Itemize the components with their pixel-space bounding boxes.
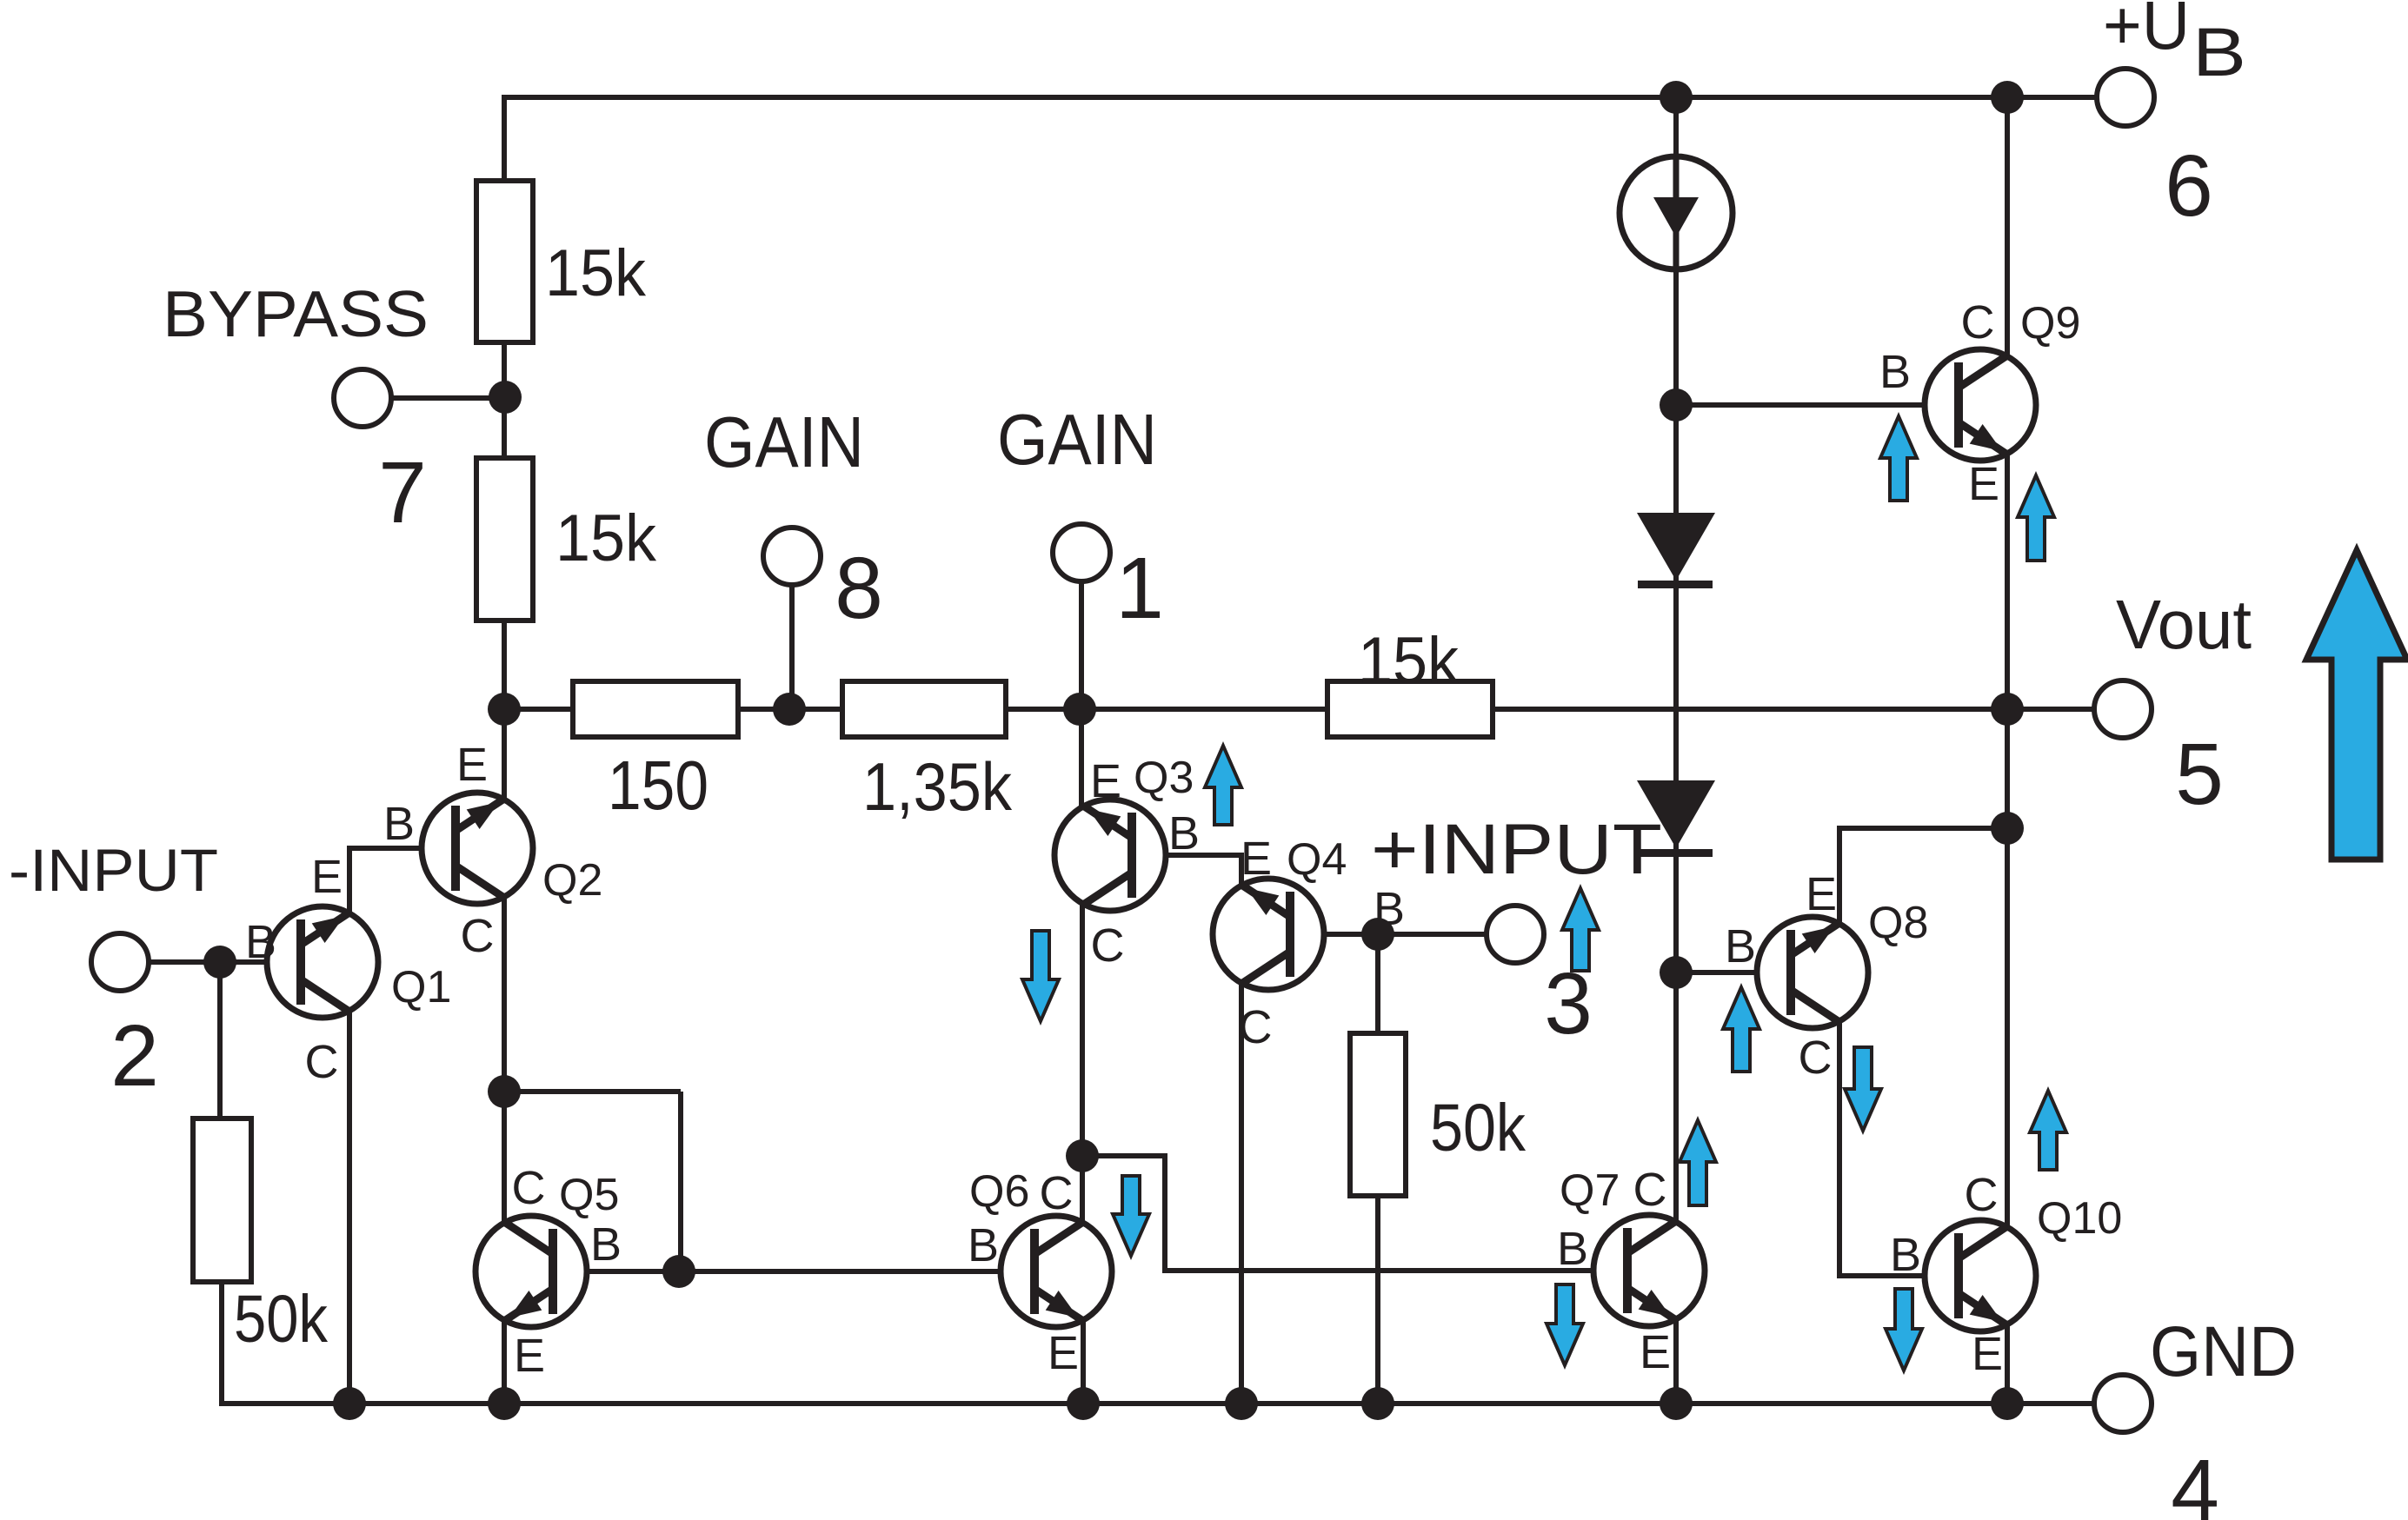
current arrow Q7 collector up xyxy=(1680,1120,1716,1205)
svg-text:C: C xyxy=(461,910,495,962)
wire Q8 collector to Q10 base xyxy=(1839,1022,1955,1276)
svg-text:C: C xyxy=(1799,1032,1833,1084)
terminal pin 1 GAIN xyxy=(1053,524,1110,581)
svg-text:B: B xyxy=(590,1218,622,1271)
label 7 xyxy=(378,444,427,541)
current arrow Q8 collector down xyxy=(1845,1047,1881,1131)
label 6 xyxy=(2165,137,2213,235)
diode D2 xyxy=(1637,780,1715,857)
resistor 50k (pin2 input bias) xyxy=(193,1118,328,1357)
terminal pin 6 +UB xyxy=(2097,69,2154,126)
transistor Q2 xyxy=(383,739,602,962)
label GND xyxy=(2150,1312,2297,1391)
svg-text:Q2: Q2 xyxy=(542,855,602,906)
transistor Q5 xyxy=(476,1162,622,1382)
svg-text:GND: GND xyxy=(2150,1312,2297,1391)
node Q8 emitter xyxy=(1991,812,2024,845)
svg-text:8: 8 xyxy=(835,540,883,637)
node Q2 collector xyxy=(488,1075,521,1108)
svg-text:E: E xyxy=(1972,1328,2003,1380)
label 8 xyxy=(835,540,883,637)
svg-text:Q10: Q10 xyxy=(2037,1193,2122,1244)
svg-text:7: 7 xyxy=(378,444,427,541)
svg-text:-INPUT: -INPUT xyxy=(9,837,218,904)
svg-text:+INPUT: +INPUT xyxy=(1371,810,1662,889)
wire Q3 base to Q4 emitter xyxy=(1135,855,1241,886)
current arrow Q7 base down xyxy=(1547,1284,1583,1365)
wire feedback rail (pins 8-1, 15k to Vout) xyxy=(504,707,2097,712)
transistor Q6 xyxy=(968,1166,1112,1379)
current arrow pin3 up xyxy=(1562,888,1599,971)
wire Q3 collector / Q6 collector xyxy=(1080,905,1085,1222)
svg-text:C: C xyxy=(1633,1164,1667,1216)
svg-text:B: B xyxy=(1168,807,1200,860)
node gnd Q5 xyxy=(488,1387,521,1420)
svg-text:B: B xyxy=(1557,1223,1588,1275)
svg-text:C: C xyxy=(1091,919,1125,972)
svg-text:B: B xyxy=(2192,13,2246,90)
node Q5-Q6 base xyxy=(662,1255,695,1288)
svg-text:BYPASS: BYPASS xyxy=(163,277,429,350)
svg-text:B: B xyxy=(1879,346,1911,398)
svg-text:B: B xyxy=(383,798,415,850)
svg-text:C: C xyxy=(512,1162,546,1214)
transistor Q10 xyxy=(1890,1169,2122,1380)
node Q8 base xyxy=(1660,956,1693,989)
svg-text:Q6: Q6 xyxy=(969,1166,1029,1217)
svg-text:15k: 15k xyxy=(1358,624,1460,698)
transistor Q8 xyxy=(1725,868,1928,1084)
wire top +UB rail xyxy=(504,95,2097,100)
wire Q3C node to Q7 base link xyxy=(1082,1156,1624,1271)
wire between 15k resistors through bypass node xyxy=(502,340,507,461)
svg-text:E: E xyxy=(1090,755,1121,807)
node Q3 collector xyxy=(1066,1139,1099,1172)
wire Q9 base from bias chain xyxy=(1676,402,1953,408)
svg-text:150: 150 xyxy=(608,747,708,824)
transistor Q4 xyxy=(1213,833,1405,1053)
wire pin2 node to 50k xyxy=(217,962,223,1121)
current arrow Q8 base up xyxy=(1723,987,1759,1072)
wire left vertical from top rail to 15k resistor xyxy=(502,95,507,183)
terminal pin 8 GAIN xyxy=(763,528,821,585)
wire Q5-Q6 base rail xyxy=(556,1269,1030,1274)
wire 50k-2 vertical xyxy=(1375,934,1380,1404)
label 1 xyxy=(1115,540,1164,637)
current arrow Q10 collector up xyxy=(2030,1091,2066,1170)
transistor Q1 xyxy=(245,851,451,1088)
svg-text:6: 6 xyxy=(2165,137,2213,235)
wire Q4 collector to ground xyxy=(1239,984,1244,1404)
svg-text:B: B xyxy=(968,1219,999,1271)
svg-text:Vout: Vout xyxy=(2116,586,2252,663)
current arrow Q6 down xyxy=(1113,1176,1149,1256)
transistor Q7 xyxy=(1557,1164,1705,1378)
wire bias chain vertical (current source, diodes) xyxy=(1673,95,1679,1221)
current source xyxy=(1620,156,1733,269)
svg-text:Q3: Q3 xyxy=(1134,753,1194,803)
svg-text:B: B xyxy=(245,916,276,968)
svg-text:Q9: Q9 xyxy=(2020,298,2080,348)
wire Q6 emitter to ground xyxy=(1081,1321,1086,1404)
svg-text:50k: 50k xyxy=(234,1282,328,1357)
node pin2 xyxy=(203,946,236,979)
wire ground rail to GND terminal xyxy=(2007,1401,2094,1406)
svg-text:GAIN: GAIN xyxy=(997,399,1157,480)
node gnd 50k xyxy=(1361,1387,1394,1420)
svg-text:E: E xyxy=(1241,833,1272,885)
resistor 1,35k (gain network) xyxy=(842,681,1013,825)
svg-text:E: E xyxy=(1048,1327,1079,1379)
svg-text:Q4: Q4 xyxy=(1287,834,1347,885)
label +INPUT xyxy=(1371,810,1662,889)
svg-text:GAIN: GAIN xyxy=(704,402,864,482)
transistor Q9 xyxy=(1879,296,2080,510)
svg-text:15k: 15k xyxy=(545,236,647,310)
terminal pin 4 GND xyxy=(2094,1375,2152,1432)
node pin8 xyxy=(773,693,806,726)
svg-text:C: C xyxy=(1239,1001,1273,1053)
node gnd Q7 xyxy=(1660,1387,1693,1420)
output current arrow (big) xyxy=(2306,550,2407,860)
svg-text:C: C xyxy=(305,1036,339,1088)
node bias top xyxy=(1660,81,1693,114)
svg-text:E: E xyxy=(311,851,343,903)
wire Q8 base from diode node xyxy=(1676,970,1786,975)
svg-text:4: 4 xyxy=(2171,1442,2219,1520)
label 5 xyxy=(2175,726,2224,823)
svg-text:2: 2 xyxy=(110,1007,159,1105)
svg-text:E: E xyxy=(1968,458,1999,510)
svg-text:1,35k: 1,35k xyxy=(862,748,1013,825)
wire Q2C node to Q5 base link horizontal xyxy=(504,1089,681,1094)
diode D1 xyxy=(1637,513,1715,588)
resistor 15k (feedback to Vout) xyxy=(1327,624,1493,737)
svg-text:Q7: Q7 xyxy=(1560,1165,1620,1216)
label BYPASS xyxy=(163,277,429,350)
wire 50k to ground rail xyxy=(222,1279,2007,1404)
label 3 xyxy=(1544,955,1593,1052)
label +UB xyxy=(2103,0,2246,90)
wire Q1 emitter to Q2 base xyxy=(349,848,451,913)
svg-text:B: B xyxy=(1725,920,1756,972)
transistor Q3 xyxy=(1054,753,1200,972)
svg-text:5: 5 xyxy=(2175,726,2224,823)
label -INPUT xyxy=(9,837,218,904)
label Vout xyxy=(2116,586,2252,663)
wire bypass terminal to node 7 xyxy=(391,395,505,401)
svg-text:Q5: Q5 xyxy=(559,1170,619,1220)
wire Q2 emitter to rail xyxy=(502,709,507,800)
svg-text:50k: 50k xyxy=(1430,1091,1526,1165)
svg-text:B: B xyxy=(1890,1229,1921,1281)
wire Q2 collector / Q5 collector xyxy=(502,896,507,1223)
wire Q1 collector to ground xyxy=(347,1012,352,1404)
current arrow Q3 collector down xyxy=(1022,931,1059,1021)
wire right output rail (Q9 C-E, Vout, Q10 C) xyxy=(2005,97,2010,1226)
label GAIN 8 xyxy=(704,402,864,482)
terminal pin 7 BYPASS xyxy=(334,369,391,427)
node pin3 +input xyxy=(1361,918,1394,951)
node gnd Q4 xyxy=(1225,1387,1258,1420)
label 2 xyxy=(110,1007,159,1105)
label GAIN 1 xyxy=(997,399,1157,480)
svg-text:+U: +U xyxy=(2103,0,2190,63)
node gnd Q10 xyxy=(1991,1387,2024,1420)
wire Q10 emitter to ground xyxy=(2005,1325,2010,1404)
node gnd Q6 xyxy=(1067,1387,1100,1420)
svg-text:Q1: Q1 xyxy=(391,962,451,1012)
svg-text:E: E xyxy=(456,739,488,791)
current arrow Q9 emitter up xyxy=(2018,475,2054,561)
svg-text:15k: 15k xyxy=(555,501,657,575)
svg-text:E: E xyxy=(1640,1326,1671,1378)
node pin1 xyxy=(1063,693,1096,726)
wire Q5 emitter to ground xyxy=(502,1321,507,1404)
resistor 15k (top, pin7 upper) xyxy=(476,181,647,342)
wire Q1 base from pin 2 xyxy=(149,959,296,965)
current arrow Q9 base up xyxy=(1880,416,1917,501)
terminal pin 2 -INPUT xyxy=(91,933,149,991)
terminal pin 3 +INPUT xyxy=(1487,906,1544,963)
node Q9 base xyxy=(1660,388,1693,421)
node gnd Q1 xyxy=(333,1387,366,1420)
wire Q4 base to +input xyxy=(1294,932,1487,937)
wire Q8 emitter to output rail xyxy=(1839,828,2007,923)
terminal pin 5 Vout xyxy=(2094,680,2152,738)
resistor 150 (gain network) xyxy=(573,681,738,824)
svg-text:C: C xyxy=(1965,1169,1999,1221)
wire Q7 emitter to ground xyxy=(1673,1320,1679,1404)
svg-text:Q8: Q8 xyxy=(1868,898,1928,948)
label 4 xyxy=(2171,1442,2219,1520)
wire gain pin 8 drop xyxy=(789,585,795,709)
node feedback left xyxy=(488,693,521,726)
svg-text:E: E xyxy=(514,1330,545,1382)
svg-text:C: C xyxy=(1961,296,1995,348)
node Vout xyxy=(1991,693,2024,726)
node +UB rail right xyxy=(1991,81,2024,114)
svg-text:C: C xyxy=(1040,1167,1074,1219)
wire 15k to feedback rail xyxy=(502,618,507,709)
wire gain pin 1 / Q3 emitter drop xyxy=(1079,583,1084,806)
resistor 50k (pin3 input bias) xyxy=(1350,1033,1526,1196)
resistor 15k (pin7 lower) xyxy=(476,458,657,621)
wire Q5 base link vertical xyxy=(678,1092,683,1271)
current arrow Q3 emitter up xyxy=(1205,746,1241,825)
current arrow Q10 base down xyxy=(1886,1289,1922,1371)
node 7 bypass xyxy=(489,381,522,414)
svg-text:1: 1 xyxy=(1115,540,1164,637)
svg-text:E: E xyxy=(1806,868,1837,920)
